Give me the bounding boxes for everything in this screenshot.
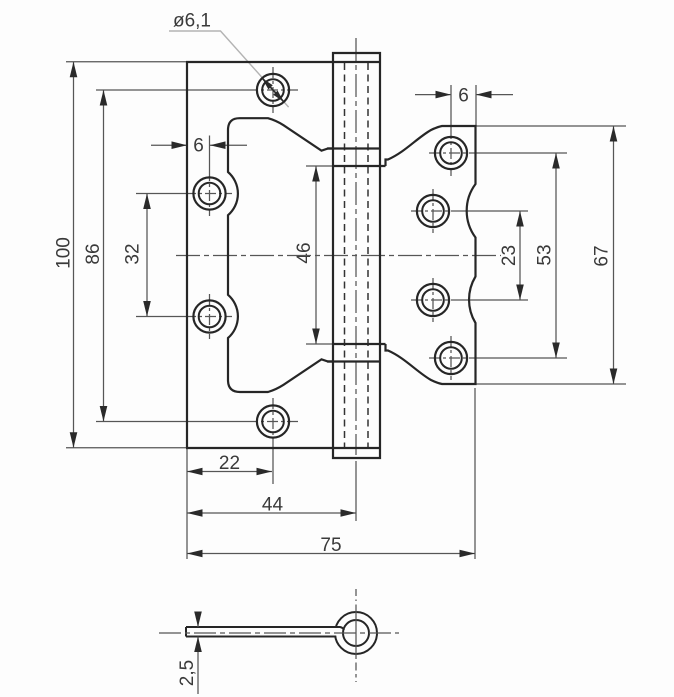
dimension 6 right tail lines — [415, 94, 451, 96]
arrow 53 top — [552, 153, 560, 169]
centreline right hole 1 — [429, 152, 474, 154]
arrow 75 left — [187, 550, 203, 558]
screw hole right-4 outer — [435, 342, 467, 374]
side view plate outline — [186, 627, 344, 637]
screw hole top-left outer — [257, 74, 289, 106]
extension line right-leaf corner for 6 — [475, 85, 477, 126]
screw hole right-4 inner — [440, 347, 462, 369]
barrel vertical centreline — [355, 38, 357, 455]
extension line mid-left lower hole for 32 — [136, 316, 185, 318]
svg-text:44: 44 — [262, 495, 284, 516]
centreline vertical mid-left upper hole extended for 6 — [209, 136, 211, 171]
arrow 23 bottom — [516, 285, 524, 301]
leader diameter segment across hole — [262, 78, 284, 102]
dimension line 75 — [187, 553, 475, 555]
dimension 6 left tail lines — [151, 144, 187, 146]
centreline right hole 3 — [411, 299, 456, 301]
extension line right for 75 — [474, 388, 476, 559]
barrel hidden line right — [367, 63, 369, 447]
knuckle joint line upper left-leaf — [327, 147, 380, 149]
arrow 32 top — [143, 194, 151, 210]
svg-text:53: 53 — [535, 244, 556, 265]
dimension line 67 — [613, 126, 615, 384]
svg-text:22: 22 — [219, 453, 240, 474]
arrow 53 bottom — [552, 343, 560, 359]
dimension 2,5 line below — [197, 637, 199, 695]
dimension line 32 — [146, 194, 148, 317]
left leaf inner cut contour — [228, 118, 333, 392]
svg-text:6: 6 — [193, 136, 204, 157]
screw hole right-2 inner — [422, 200, 444, 222]
screw hole top-left inner — [262, 79, 284, 101]
dimension line 86 — [103, 90, 105, 422]
dimension line 23 — [519, 211, 521, 300]
arrow 86 top — [100, 90, 108, 106]
arrow 67 bottom — [610, 369, 618, 385]
centreline vertical mid-left lower hole — [209, 294, 211, 339]
screw hole bottom-left outer — [257, 405, 289, 437]
svg-text:75: 75 — [320, 535, 341, 556]
extension line left for 22 44 75 — [186, 448, 188, 559]
knuckle joint line lower right-leaf — [333, 343, 386, 345]
arrow 44 right — [341, 509, 357, 517]
screw hole right-3 inner — [422, 289, 444, 311]
left leaf outline — [186, 62, 380, 448]
extension line 46 bottom — [306, 343, 332, 345]
arrow 44 left — [187, 509, 203, 517]
arrow 46 bottom — [312, 329, 320, 345]
svg-text:67: 67 — [592, 245, 613, 266]
arrow 67 top — [610, 126, 618, 142]
side view horizontal centreline — [159, 632, 399, 634]
leader arrow upper-left on hole — [262, 78, 273, 89]
svg-text:ø6,1: ø6,1 — [173, 11, 211, 32]
side view barrel outer circle — [335, 612, 377, 654]
svg-text:46: 46 — [294, 242, 315, 263]
svg-text:86: 86 — [83, 243, 104, 264]
svg-text:100: 100 — [54, 237, 75, 269]
svg-text:32: 32 — [123, 243, 144, 264]
screw hole mid-left-upper outer — [193, 177, 225, 209]
knuckle joint line lower left-leaf — [327, 360, 380, 362]
arrow 2,5 up — [194, 637, 202, 653]
arrow 6 right pointing right — [436, 91, 452, 99]
dimension line 53 — [555, 153, 557, 358]
screw hole bottom-left inner — [262, 411, 284, 433]
arrow 46 top — [312, 166, 320, 182]
arrow 86 bottom — [100, 406, 108, 422]
extension line top-left for 100 — [66, 61, 188, 63]
leader arrow lower-right on hole — [273, 91, 284, 102]
arrow 2,5 down — [194, 612, 202, 628]
extension line through bottom-left hole for 86 — [96, 421, 247, 423]
svg-text:2,5: 2,5 — [177, 660, 198, 686]
leader line for diameter 6,1 — [169, 31, 289, 107]
arrow 100 top — [70, 62, 78, 77]
arrow 6 right pointing left — [476, 91, 492, 99]
main horizontal centreline — [176, 255, 501, 257]
right leaf outline — [386, 126, 476, 384]
side view plate white mask — [186, 628, 341, 636]
dimension line 46 — [315, 166, 317, 344]
screw hole mid-left-lower inner — [199, 306, 221, 328]
dimension line 22 — [187, 471, 272, 473]
centreline right hole 2 — [411, 210, 456, 212]
extension line 67 bottom — [476, 383, 626, 385]
centreline vertical bottom-left hole extended for 22 — [272, 398, 274, 445]
dimension line 44 — [187, 512, 356, 514]
arrow 23 top — [516, 211, 524, 227]
hinge barrel outline — [333, 53, 380, 458]
svg-text:23: 23 — [499, 245, 520, 266]
arrow 22 right — [257, 468, 273, 476]
screw hole right-1 outer — [435, 137, 467, 169]
extension line through top-left hole for 86 — [96, 89, 247, 91]
arrow 75 right — [460, 550, 476, 558]
knuckle joint line upper right-leaf — [333, 165, 386, 167]
screw hole right-1 inner — [440, 142, 462, 164]
arrow 6 left pointing right — [172, 141, 188, 149]
screw hole mid-left-lower outer — [193, 300, 225, 332]
arrow 32 bottom — [143, 301, 151, 317]
arrow 6 left pointing left — [210, 141, 226, 149]
svg-text:6: 6 — [458, 86, 469, 107]
screw hole right-2 outer — [417, 195, 449, 227]
side view vertical centreline — [355, 589, 357, 601]
centreline vertical top-left hole — [272, 67, 274, 113]
side view barrel inner circle — [343, 620, 369, 646]
arrow 100 bottom — [70, 432, 78, 448]
extension line 46 top — [306, 165, 332, 167]
extension line bottom-left for 100 — [66, 447, 188, 449]
barrel hidden line left — [344, 63, 346, 447]
screw hole mid-left-upper inner — [199, 183, 221, 205]
extension line 67 top — [476, 125, 626, 127]
centreline right hole 4 — [429, 357, 474, 359]
dimension 2,5 line above — [197, 612, 199, 627]
arrow 22 left — [187, 468, 203, 476]
screw hole right-3 outer — [417, 284, 449, 316]
dimension line 100 — [73, 62, 75, 448]
extension line mid-left upper hole for 32 — [136, 193, 185, 195]
